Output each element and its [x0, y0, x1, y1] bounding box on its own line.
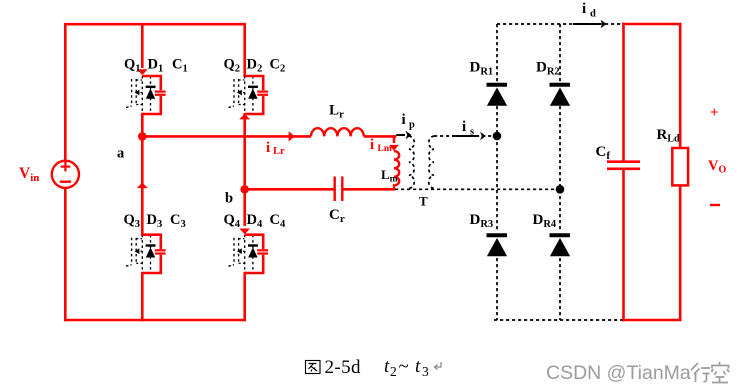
wire: primary bottom rail: [64, 319, 246, 322]
wire: Q4 drain from node b: [243, 189, 246, 226]
label Lr: [329, 103, 344, 121]
watermark: CSDN @TianMa: [546, 362, 691, 384]
svg-text:D3: D3: [147, 212, 163, 230]
svg-text:Vin: Vin: [19, 165, 39, 184]
label D1: [148, 57, 164, 75]
svg-text:DR3: DR3: [470, 212, 494, 230]
svg-text:b: b: [225, 191, 233, 207]
svg-text:i: i: [370, 137, 374, 153]
label - (output polarity): [710, 204, 720, 206]
current arrow iLr (right): [289, 131, 295, 141]
label is: [462, 119, 474, 138]
current arrow is (black, right): [452, 132, 486, 140]
wire: primary top rail: [64, 23, 246, 26]
wire: secondary top dashed (is line): [434, 135, 497, 137]
svg-text:i: i: [402, 112, 406, 128]
diode D3 (body diode): [146, 235, 156, 273]
label DR2: [536, 60, 560, 78]
label a: [117, 146, 125, 162]
label iLm: [370, 137, 392, 154]
wire: Cf branch upper: [622, 23, 625, 161]
svg-text:C2: C2: [270, 57, 286, 75]
diode DR3: [487, 235, 508, 256]
capacitor C2 with red loop: [245, 76, 268, 114]
wire: Lr to Lm top corner: [364, 135, 397, 143]
svg-text:Q4: Q4: [224, 212, 241, 230]
svg-text:C3: C3: [170, 212, 186, 230]
label Q4: [224, 212, 241, 230]
svg-text:i: i: [266, 140, 270, 156]
label Cr: [329, 207, 345, 225]
wire: secondary bottom rail dashed: [494, 319, 623, 321]
node: DR2/DR4 junction (right bridge leg): [556, 185, 565, 194]
capacitor C3 with red loop: [142, 235, 165, 273]
current arrow iLm (down into Lm): [389, 145, 399, 151]
node a: [138, 132, 147, 141]
wire: output top red rail: [622, 23, 681, 26]
label Lm: [381, 167, 398, 185]
label Q3: [124, 212, 141, 230]
svg-text:CSDN @TianMa: CSDN @TianMa: [546, 362, 691, 384]
current arrow into Q1 (down): [137, 69, 148, 75]
label id: [582, 1, 596, 20]
wire: Q2 source to node b (crosses a-line): [243, 113, 246, 191]
capacitor Cf: [607, 162, 640, 169]
svg-text:Q1: Q1: [124, 57, 141, 75]
wire: node a down to Q3: [141, 136, 144, 235]
label D4: [247, 212, 263, 230]
svg-text:T: T: [419, 194, 428, 209]
label C1: [172, 57, 188, 75]
caption: t2~t3: [384, 356, 429, 379]
svg-text:DR4: DR4: [533, 212, 557, 230]
wire: left rail upper (Vin top lead): [64, 23, 67, 161]
wire: Q2 drain lead: [243, 23, 246, 77]
caption: return mark: [435, 362, 442, 370]
label DR1: [470, 60, 494, 78]
wire: Q3 source to bottom rail: [141, 272, 144, 322]
svg-text:VO: VO: [708, 158, 726, 176]
mosfet Q3 (dashed symbol + channel): [126, 235, 142, 273]
svg-text:DR2: DR2: [536, 60, 560, 78]
diode D4 (body diode): [248, 235, 258, 273]
wire: Cf branch lower: [622, 170, 625, 321]
wire: right bridge leg dashed (x=560): [559, 24, 561, 320]
svg-text:Lm: Lm: [381, 167, 398, 185]
svg-text:Cr: Cr: [329, 207, 345, 225]
label iLr: [266, 140, 285, 157]
wire: Q1 source to node a: [141, 113, 144, 138]
current arrow id (black, right): [573, 20, 607, 28]
diode DR4: [550, 235, 571, 256]
label ip: [402, 112, 416, 131]
wire: RLd branch lower: [679, 185, 682, 321]
label C2: [270, 57, 286, 75]
svg-text:+: +: [710, 105, 719, 121]
label DR3: [470, 212, 494, 230]
inductor Lr: [311, 128, 364, 136]
svg-text:D4: D4: [247, 212, 263, 230]
label VO: [708, 158, 726, 176]
capacitor C1 with red loop: [142, 76, 165, 114]
diode DR1: [487, 85, 508, 106]
mosfet Q2 (dashed symbol + channel): [228, 76, 244, 114]
label DR4: [533, 212, 557, 230]
label D3: [147, 212, 163, 230]
svg-text:C4: C4: [270, 212, 286, 230]
current arrow up toward node a: [137, 182, 148, 188]
svg-text:Cf: Cf: [596, 144, 611, 162]
current arrow into Q4 (down): [239, 229, 250, 235]
label C3: [170, 212, 186, 230]
svg-text:D1: D1: [148, 57, 164, 75]
label b: [225, 191, 233, 207]
wire: left bridge leg dashed (x=497): [496, 24, 498, 320]
wire: Q1 drain lead: [141, 23, 144, 68]
svg-text:DR1: DR1: [470, 60, 494, 78]
svg-text:p: p: [409, 120, 415, 131]
wire: node b to Cr: [245, 188, 334, 191]
svg-text:i: i: [582, 1, 586, 17]
label C4: [270, 212, 286, 230]
diode DR2: [550, 85, 571, 106]
svg-text:3: 3: [422, 364, 429, 379]
capacitor Cr: [335, 177, 343, 202]
source Vin: [52, 161, 79, 188]
label D2: [247, 57, 263, 75]
svg-text:Lr: Lr: [273, 146, 285, 157]
label Q2: [224, 57, 241, 75]
resistor RLd: [672, 148, 688, 185]
svg-text:C1: C1: [172, 57, 188, 75]
svg-text:Lm: Lm: [378, 144, 392, 154]
inductor Lm (magnetizing): [394, 151, 399, 189]
transformer T primary winding (dashed): [409, 136, 414, 188]
watermark: 行空 glyphs: [691, 362, 729, 383]
svg-text:i: i: [462, 119, 466, 135]
svg-text:t: t: [415, 356, 421, 377]
label + (output polarity): [710, 105, 719, 121]
svg-text:~: ~: [399, 356, 409, 377]
wire: RLd branch upper: [679, 23, 682, 148]
svg-text:s: s: [470, 127, 474, 138]
label RLd: [657, 127, 681, 145]
svg-text:d: d: [590, 9, 596, 20]
node b: [240, 185, 249, 194]
wire: output bottom red rail: [622, 319, 680, 322]
diode D2 (body diode): [248, 76, 258, 114]
svg-text:Q2: Q2: [224, 57, 241, 75]
svg-text:Q3: Q3: [124, 212, 141, 230]
mosfet Q4 (dashed symbol + channel): [228, 235, 244, 273]
svg-text:2: 2: [390, 364, 397, 379]
current arrow into Q2 (up): [239, 114, 250, 120]
svg-text:RLd: RLd: [657, 127, 681, 145]
transformer T secondary winding (dashed): [429, 136, 434, 188]
wire: left rail lower (Vin bottom lead): [64, 188, 67, 321]
wire: node a to Lr (a-line): [142, 135, 311, 138]
wire: Cr to Lm bottom: [343, 188, 395, 191]
label T: [419, 194, 428, 209]
label Q1: [124, 57, 141, 75]
svg-text:D2: D2: [247, 57, 263, 75]
label Cf: [596, 144, 611, 162]
capacitor C4 with red loop: [245, 235, 268, 273]
mosfet Q1 (dashed symbol + channel): [126, 76, 142, 114]
wire: secondary top rail dashed: [497, 23, 622, 25]
caption: 图 2-5d: [306, 357, 362, 378]
current arrow ip (black, right): [396, 131, 411, 139]
node: is junction (left bridge leg): [493, 132, 502, 141]
label Vin: [19, 165, 39, 184]
diode D1 (body diode): [146, 76, 156, 114]
wire: Q4 source to bottom rail: [243, 272, 246, 322]
svg-text:2-5d: 2-5d: [325, 357, 362, 378]
wire: transformer bottom dashed net (to DR2/DR4 node): [395, 188, 560, 190]
svg-text:a: a: [117, 146, 125, 162]
svg-text:Lr: Lr: [329, 103, 344, 121]
